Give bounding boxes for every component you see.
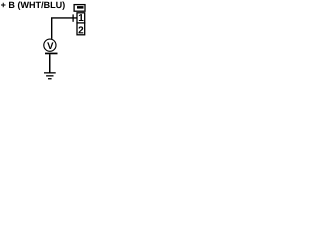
wire from voltmeter to ground <box>49 54 51 73</box>
pin 1 <box>79 14 84 21</box>
voltmeter V1 <box>44 39 58 54</box>
connector housing <box>74 5 85 12</box>
wire from pin 1 to voltmeter <box>52 18 77 39</box>
ground <box>44 72 56 79</box>
net label +B (WHT/BLU) <box>1 1 65 9</box>
connector entry tick <box>72 14 74 21</box>
pin 2 <box>78 26 83 33</box>
connector pin table <box>76 13 85 35</box>
